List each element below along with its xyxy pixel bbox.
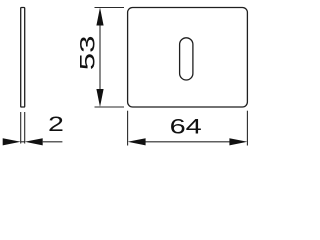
svg-text:2: 2 xyxy=(48,112,64,136)
svg-text:53: 53 xyxy=(76,36,100,71)
svg-text:64: 64 xyxy=(170,115,202,139)
